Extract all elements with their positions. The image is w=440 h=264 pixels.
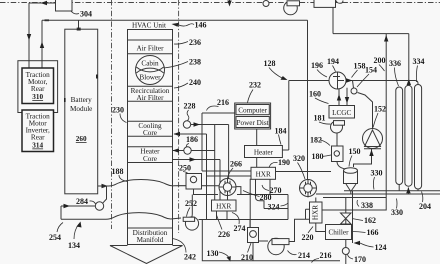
- svg-text:180: 180: [312, 152, 324, 161]
- wire fan266 right: [236, 187, 241, 195]
- label 242: [173, 239, 187, 253]
- svg-text:236: 236: [189, 38, 201, 47]
- wire 250 down and right y194.5: [194, 189, 289, 195]
- wire x352.5: [352, 191, 354, 243]
- x valve 162: [341, 198, 352, 225]
- svg-text:Cabin: Cabin: [141, 60, 159, 68]
- fan 320: [300, 180, 317, 197]
- svg-text:Module: Module: [70, 105, 92, 113]
- label 254: [57, 223, 63, 233]
- wire from 186 port right: [191, 150, 215, 152]
- wire heater core left arrow y150.5: [173, 150, 184, 152]
- svg-text:181: 181: [314, 114, 326, 123]
- wire pump214 up: [289, 219, 310, 241]
- wire right horizontals bottom band: [344, 190, 440, 192]
- cooling core cell: [128, 121, 173, 136]
- heater box: [245, 146, 283, 158]
- funnel below cylinder: [346, 184, 356, 194]
- recirculation air filter cell: [128, 86, 173, 101]
- wire hxr190 second port: [207, 175, 252, 177]
- wire hxr190 elbow to 324 loop: [256, 179, 265, 208]
- arrow 146: [172, 23, 180, 27]
- svg-text:190: 190: [278, 158, 290, 167]
- pump top scroll: [284, 1, 300, 15]
- wire valve210 right to pump214: [259, 240, 269, 242]
- port circle 228 at cooling core: [183, 121, 190, 128]
- arrow left on wire: [41, 1, 48, 5]
- HXR 220 vertical box: [310, 202, 323, 223]
- small circle 154: [351, 88, 357, 94]
- hxr220 stubs: [316, 198, 326, 232]
- svg-text:160: 160: [309, 90, 321, 99]
- valve210 top stub: [249, 220, 251, 228]
- svg-text:266: 266: [230, 160, 242, 169]
- wire x385.5 down: [322, 34, 386, 210]
- svg-text:250: 250: [179, 164, 191, 173]
- svg-text:182: 182: [310, 136, 322, 145]
- wire chiller down circle 170: [345, 240, 347, 264]
- tick battery top: [77, 28, 81, 30]
- arrow up x42: [40, 42, 44, 49]
- wire horizontal y21 long: [42, 19, 308, 21]
- label 236: [174, 42, 188, 45]
- svg-text:152: 152: [374, 105, 386, 114]
- svg-text:324: 324: [268, 203, 280, 212]
- svg-text:Rear: Rear: [31, 134, 45, 142]
- HXR 226 box: [212, 200, 237, 211]
- svg-text:230: 230: [112, 106, 124, 115]
- svg-text:228: 228: [184, 102, 196, 111]
- svg-text:Power Dist: Power Dist: [237, 119, 269, 127]
- wire x409.5 down to capsule: [408, 34, 410, 86]
- boundary dash-dot horizontal top: [0, 2, 440, 4]
- svg-text:214: 214: [298, 251, 310, 260]
- svg-text:314: 314: [32, 142, 43, 150]
- tick on wire start: [45, 19, 50, 21]
- svg-text:146: 146: [195, 21, 207, 30]
- svg-text:216: 216: [320, 251, 332, 260]
- box 304: [56, 0, 73, 11]
- svg-text:232: 232: [249, 81, 261, 90]
- wire x214.7 down: [214, 125, 216, 201]
- svg-text:320: 320: [293, 154, 305, 163]
- wire down x228.6 to fan: [228, 125, 230, 179]
- svg-text:Air Filter: Air Filter: [137, 94, 165, 102]
- LCGC box: [329, 106, 355, 119]
- chiller box: [326, 225, 352, 240]
- cylinder 150: [344, 168, 358, 184]
- traction motor rear box 310: [22, 68, 54, 104]
- svg-text:196: 196: [311, 61, 323, 70]
- svg-text:124: 124: [375, 243, 387, 252]
- tick battery right: [96, 75, 98, 79]
- wire power dist to heater: [256, 129, 258, 146]
- wire battery right y186 with arrow: [98, 185, 103, 187]
- svg-text:238: 238: [189, 58, 201, 67]
- fan 266: [219, 179, 236, 196]
- wire pump left y206: [61, 205, 95, 207]
- svg-text:254: 254: [49, 233, 61, 242]
- svg-text:184: 184: [275, 127, 287, 136]
- valve 250: [186, 174, 202, 190]
- wire down left x29: [28, 3, 30, 68]
- computer power dist box: [235, 103, 271, 129]
- svg-text:304: 304: [80, 10, 92, 19]
- wire y219.5: [199, 219, 289, 221]
- svg-text:170: 170: [354, 255, 366, 264]
- wire heater right: [282, 149, 288, 151]
- svg-text:Manifold: Manifold: [137, 236, 164, 244]
- pump 284 circle: [95, 202, 103, 210]
- svg-text:Chiller: Chiller: [329, 229, 350, 237]
- wire compressor suction: [354, 149, 372, 167]
- svg-text:310: 310: [32, 93, 43, 101]
- divider y40: [128, 39, 173, 41]
- wire x202 computer down: [201, 113, 203, 171]
- svg-text:134: 134: [68, 241, 80, 250]
- svg-text:330: 330: [371, 169, 383, 178]
- fan320 bottom stub: [307, 197, 309, 198]
- svg-text:186: 186: [186, 135, 198, 144]
- boundary dash-dot vertical left: [111, 0, 113, 229]
- svg-text:204: 204: [419, 202, 431, 211]
- battery top stub: [78, 20, 80, 29]
- svg-text:Battery: Battery: [71, 96, 93, 104]
- svg-text:166: 166: [367, 228, 379, 237]
- label 338: [357, 200, 359, 207]
- svg-text:336: 336: [389, 59, 401, 68]
- svg-text:194: 194: [327, 57, 339, 66]
- HXR226 bottom stubs: [217, 211, 228, 220]
- wire x270 from HXR190: [269, 179, 271, 195]
- svg-text:200: 200: [374, 56, 386, 65]
- arrow right after valve: [346, 78, 353, 82]
- wire x251.5 down to valve210: [249, 179, 251, 228]
- wire 128 corner: [288, 81, 290, 151]
- svg-text:HXR: HXR: [216, 203, 231, 211]
- svg-text:280: 280: [260, 193, 272, 202]
- traction motor inverter box 314: [22, 110, 54, 152]
- port circle 186 at heater core: [184, 147, 191, 154]
- wire corner x61 down: [60, 206, 62, 219]
- svg-text:334: 334: [413, 57, 425, 66]
- label 188: [119, 175, 128, 182]
- valve 210: [248, 228, 259, 243]
- capsule 2: [405, 85, 412, 186]
- svg-text:226: 226: [218, 230, 230, 239]
- label 134: [74, 224, 79, 239]
- big hollow arrow: [110, 246, 183, 264]
- svg-text:130: 130: [207, 249, 219, 258]
- svg-text:HVAC Unit: HVAC Unit: [132, 22, 166, 30]
- svg-text:Heater: Heater: [254, 149, 274, 157]
- svg-text:220: 220: [302, 233, 314, 242]
- hxr220 left upper stub: [306, 209, 310, 219]
- capsule 334: [415, 85, 422, 190]
- wire into pump from battery area: [103, 186, 107, 203]
- label 240: [174, 83, 188, 88]
- fan266 bottom stub: [227, 196, 229, 201]
- capsule 336: [396, 87, 403, 185]
- wire x206.5 down: [206, 134, 208, 220]
- wire valve box to cylinder: [337, 162, 346, 170]
- LCGC wires: [339, 88, 347, 106]
- wire y159.5 arrow right: [173, 159, 221, 161]
- svg-text:150: 150: [349, 147, 361, 156]
- svg-text:Core: Core: [143, 129, 157, 137]
- cabin blower circle: [136, 56, 165, 85]
- wire up x42: [41, 20, 43, 68]
- tick battery left: [64, 98, 66, 102]
- arrow right y206: [64, 204, 71, 208]
- wire y134 arrow left into cooling core: [174, 133, 207, 135]
- svg-text:242: 242: [184, 253, 196, 262]
- pump 214: [268, 238, 289, 254]
- svg-text:274: 274: [234, 224, 246, 233]
- arrow down x29: [27, 34, 31, 41]
- svg-text:284: 284: [76, 197, 88, 206]
- label 238: [164, 62, 188, 69]
- svg-text:128: 128: [264, 59, 276, 68]
- svg-text:338: 338: [361, 201, 373, 210]
- wire pump181 to valve box: [336, 133, 338, 146]
- wire x220 down: [219, 160, 221, 201]
- wire y33: [333, 33, 409, 35]
- arrow right from 228 port: [191, 124, 229, 126]
- svg-text:Blower: Blower: [139, 74, 161, 82]
- svg-text:252: 252: [185, 199, 197, 208]
- svg-text:188: 188: [112, 167, 124, 176]
- svg-text:HXR: HXR: [312, 205, 320, 220]
- svg-text:Core: Core: [143, 155, 157, 163]
- HVAC unit box: [128, 30, 173, 245]
- wire compressor top: [358, 93, 373, 129]
- wire arc A over hvac: [103, 180, 219, 187]
- valve circle 194: [329, 72, 346, 89]
- wire from box down x333: [332, 7, 334, 33]
- battery module box 260: [65, 29, 98, 194]
- capsule3 stubs: [417, 189, 419, 191]
- heater core cell: [128, 147, 173, 163]
- wire heater to hxr190: [256, 158, 258, 168]
- port circle top: [263, 1, 269, 7]
- svg-text:Rear: Rear: [31, 85, 45, 93]
- wire 324 loop: [264, 195, 288, 220]
- label 284: [90, 201, 96, 204]
- wire y113 to computer: [202, 112, 235, 114]
- svg-text:260: 260: [76, 135, 87, 143]
- svg-text:Computer: Computer: [238, 106, 267, 114]
- wire loopA down x307.5: [307, 20, 309, 180]
- pump 252: [183, 195, 198, 231]
- valve box 182 180: [332, 146, 344, 162]
- svg-text:216: 216: [217, 98, 229, 107]
- distribution manifold cell: [128, 227, 173, 229]
- svg-text:162: 162: [364, 216, 376, 225]
- wire x202.3 down bottom: [202, 220, 340, 261]
- wire top-left to box 304: [29, 2, 56, 4]
- svg-text:330: 330: [391, 208, 403, 217]
- box top right: [314, 0, 336, 7]
- svg-text:Air Filter: Air Filter: [137, 45, 165, 53]
- svg-text:158: 158: [354, 62, 366, 71]
- boundary dash-dot vertical right: [178, 0, 180, 233]
- arrow down into boundary x229.5: [229, 0, 231, 3]
- svg-text:LCGC: LCGC: [332, 109, 351, 117]
- svg-text:240: 240: [189, 78, 201, 87]
- valve210 bottom stub: [252, 243, 254, 261]
- svg-text:HXR: HXR: [256, 170, 271, 178]
- label 230: [120, 114, 127, 123]
- arrow up x385.5: [384, 35, 388, 42]
- pump 181 scroll: [331, 121, 345, 133]
- arrow up x409.5: [407, 79, 411, 85]
- capsule stub top C1: [398, 185, 400, 191]
- compressor 152: [363, 129, 383, 149]
- label 304: [71, 11, 79, 14]
- HXR 190 box: [251, 167, 276, 179]
- wire y171: [202, 170, 331, 173]
- air filter cell: [128, 53, 173, 55]
- svg-text:154: 154: [365, 66, 377, 75]
- wire arc B over hvac: [61, 213, 181, 220]
- outer bracket rear drive: [18, 61, 58, 113]
- capsule2 bottom arrow: [407, 188, 409, 195]
